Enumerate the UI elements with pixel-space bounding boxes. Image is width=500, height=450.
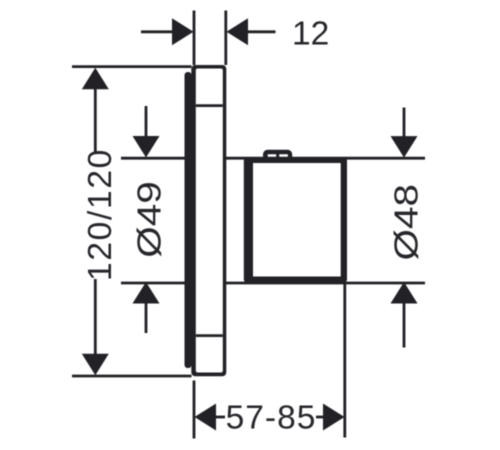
dimension 12: left extension line <box>193 11 196 66</box>
dimension D48: upper line <box>403 108 406 138</box>
safety stop tab on knob <box>263 150 292 162</box>
dimension D48: lower line <box>403 303 406 348</box>
dimension 12: right extension line <box>224 11 227 66</box>
wall plate body <box>191 65 226 376</box>
wall plate inner line top <box>196 104 223 107</box>
dimension D49: down arrow <box>133 136 160 158</box>
dimension 120/120: lower line segment <box>94 279 97 354</box>
dimension 120/120: top extension line <box>72 65 192 68</box>
dimension 12: left arrow <box>172 18 194 45</box>
dimension 57-85: right line segment <box>316 416 326 419</box>
wall plate seal bar <box>185 72 192 368</box>
dimension 57-85: left line segment <box>214 416 225 419</box>
dimension 57-85: right arrow <box>323 404 345 431</box>
dimension 57-85: left extension line <box>193 381 196 439</box>
handle knob body <box>244 158 347 283</box>
svg-text:12: 12 <box>292 15 329 52</box>
extension line top (knob top / diameter reference) <box>121 157 425 160</box>
dimension 12: right tail <box>246 30 276 33</box>
svg-text:57-85: 57-85 <box>226 400 317 437</box>
dimension D48: up arrow <box>391 282 418 304</box>
dimension 120/120: up arrow <box>82 68 109 90</box>
svg-text:Ø49: Ø49 <box>131 181 168 258</box>
dimension D49: lower line <box>145 303 148 334</box>
dimension D48: down arrow <box>391 136 418 158</box>
dimension 57-85: left arrow <box>195 404 217 431</box>
dimension D49: upper line <box>145 106 148 138</box>
svg-text:Ø48: Ø48 <box>388 184 425 261</box>
dimension D49: up arrow <box>133 282 160 304</box>
svg-text:120/120: 120/120 <box>82 148 119 281</box>
dimension 120/120: down arrow <box>82 354 109 376</box>
dimension 57-85: right extension line <box>343 283 346 438</box>
dimension 120/120: bottom extension line <box>72 375 192 378</box>
extension line bottom (knob bottom / diameter reference) <box>121 282 425 285</box>
dimension 12: left tail <box>141 30 173 33</box>
dimension 120/120: upper line segment <box>94 88 97 152</box>
dimension 12: right arrow <box>227 18 249 45</box>
wall plate inner line bottom <box>196 334 223 337</box>
